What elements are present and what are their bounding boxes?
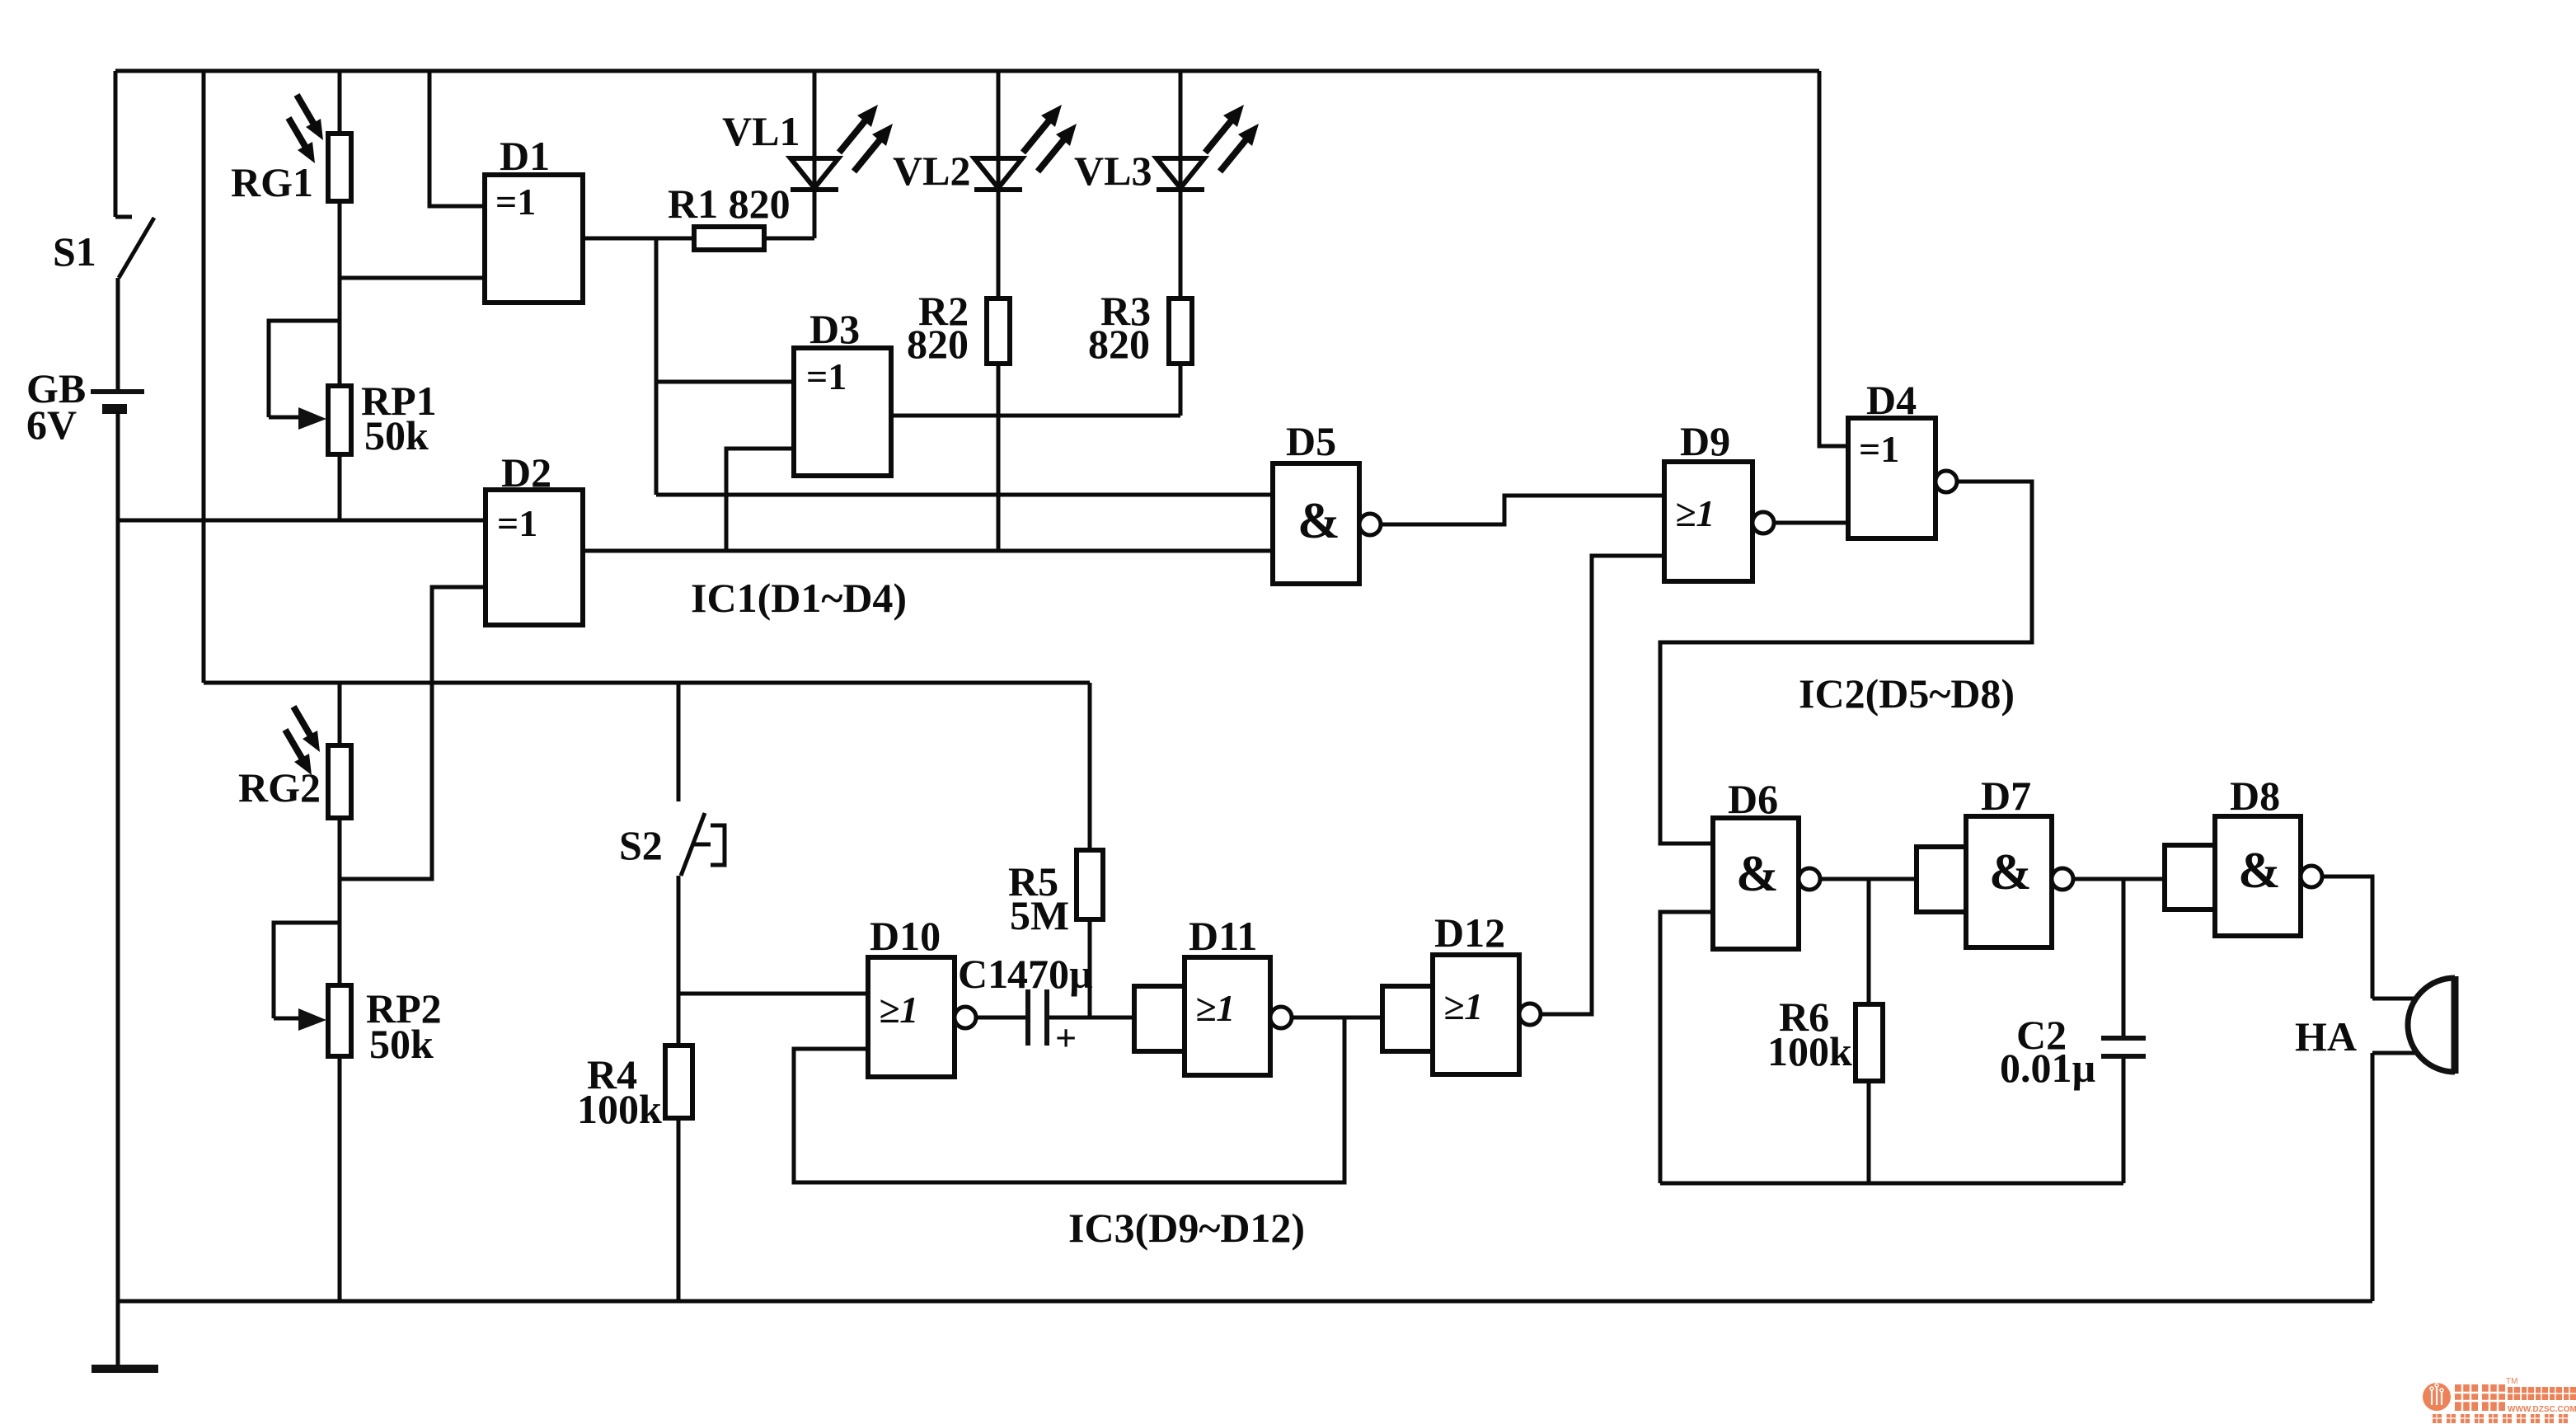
resistor R3 820: [1169, 298, 1192, 364]
svg-text:470µ: 470µ: [1007, 951, 1093, 997]
photoresistor RG2: [285, 707, 351, 818]
photoresistor RG1: [289, 95, 351, 201]
svg-text:≥1: ≥1: [879, 989, 918, 1031]
wire D7 output to D8: [2073, 877, 2165, 881]
svg-text:5M: 5M: [1010, 892, 1069, 938]
svg-text:IC1(D1~D4): IC1(D1~D4): [691, 575, 907, 621]
svg-text:&: &: [1297, 493, 1340, 549]
wire HA bottom stub: [2372, 1051, 2420, 1055]
svg-text:D10: D10: [870, 913, 941, 959]
svg-text:820: 820: [907, 321, 969, 367]
svg-text:TM: TM: [2506, 1377, 2517, 1386]
svg-text:S1: S1: [53, 228, 96, 275]
svg-text:VL1: VL1: [722, 108, 800, 154]
wire HA top stub: [2372, 997, 2420, 1001]
LED VL2: [974, 105, 1077, 190]
resistor R5 5M: [1077, 850, 1103, 919]
LED VL1: [791, 105, 893, 190]
svg-text:D11: D11: [1189, 913, 1257, 959]
svg-text:D4: D4: [1866, 377, 1917, 423]
wire VL3 cathode to R3: [1179, 190, 1183, 298]
wire RG2 to RP2: [338, 818, 342, 985]
wire node A vertical (D1 out to D5): [655, 238, 659, 495]
svg-text:D9: D9: [1680, 418, 1730, 464]
wire RP1 bottom lead: [338, 454, 342, 520]
wire R6 top lead: [1867, 879, 1871, 1004]
wire C2 top lead: [2122, 879, 2126, 1038]
watermark slogan glyphs: [2433, 1414, 2568, 1423]
watermark brand glyphs: [2455, 1384, 2505, 1411]
wire D11 output to D12: [1292, 1016, 1382, 1020]
wire C2 bottom lead: [2122, 1056, 2126, 1183]
wire R5 top lead: [1088, 683, 1092, 850]
svg-text:100k: 100k: [577, 1086, 662, 1132]
svg-text:R1 820: R1 820: [668, 181, 791, 227]
wire RG2 top lead: [338, 683, 342, 745]
LED VL3: [1157, 105, 1259, 190]
wire D9 output to D4: [1774, 521, 1848, 525]
op-amp gate D9 (NOR): [1664, 462, 1774, 581]
potentiometer RP2 50k: [274, 985, 351, 1056]
wire D3 upper input: [656, 380, 794, 384]
op-amp gate D12 (NOR): [1382, 955, 1541, 1074]
wire D12 output to D9 lower input: [1541, 556, 1664, 1014]
wire D6 output to D7: [1820, 877, 1917, 881]
svg-text:≥1: ≥1: [1195, 987, 1235, 1029]
wire D8 output to HA: [2322, 876, 2372, 999]
svg-text:RG2: RG2: [238, 764, 321, 811]
wire D2 lower input link: [340, 587, 486, 879]
switch S2: [681, 813, 725, 876]
wire R4 bottom lead: [677, 1118, 681, 1301]
wire D5 output to D9 upper input: [1381, 496, 1664, 524]
wire lower +V rail: [204, 681, 1090, 685]
svg-text:&: &: [1736, 846, 1779, 902]
wire RP2 bottom lead: [338, 1056, 342, 1301]
battery GB 6V: [91, 392, 144, 409]
wire D6 lower input feedback: [1660, 912, 1713, 1183]
svg-text:50k: 50k: [369, 1021, 434, 1067]
ground: [91, 1365, 158, 1373]
op-amp gate D3 (XOR =1): [794, 348, 891, 476]
op-amp gate D7 (NAND): [1917, 816, 2073, 947]
svg-text:D2: D2: [501, 449, 551, 496]
wire VL2 anode drop: [997, 71, 1001, 158]
wire RG1 to RP1: [338, 201, 342, 386]
svg-text:RG1: RG1: [231, 159, 313, 205]
wire R1 to VL1: [764, 237, 814, 241]
wire D4 upper input from +V rail: [1819, 71, 1848, 446]
wire IC2 feedback rail: [1660, 1182, 2123, 1186]
wire D2 output to D5 lower input: [583, 549, 1273, 553]
svg-text:D12: D12: [1434, 909, 1505, 956]
svg-text:D6: D6: [1728, 776, 1778, 822]
switch S1: [115, 217, 154, 392]
svg-text:C1: C1: [958, 951, 1008, 997]
svg-text:=1: =1: [497, 502, 537, 544]
wire R3 bottom lead: [1179, 364, 1183, 416]
op-amp gate D8 (NAND): [2165, 816, 2322, 936]
wire HA to ground rail: [2371, 1053, 2375, 1301]
svg-text:0.01µ: 0.01µ: [2000, 1045, 2095, 1091]
svg-text:≥1: ≥1: [1443, 985, 1483, 1027]
speaker HA: [2408, 976, 2455, 1074]
svg-text:&: &: [1989, 844, 2032, 900]
wire R5 bottom lead: [1088, 919, 1092, 1017]
wire D1 lower input: [340, 276, 485, 280]
wire RG1 top lead: [338, 71, 342, 134]
capacitor C2 0.01u: [2101, 1038, 2146, 1056]
svg-text:6V: 6V: [26, 402, 77, 448]
op-amp gate D1 (XOR =1): [485, 175, 583, 303]
resistor R1 820: [694, 227, 764, 250]
wire R2 bottom lead: [997, 364, 1001, 551]
svg-text:D7: D7: [1981, 773, 2031, 819]
svg-text:&: &: [2238, 843, 2281, 899]
op-amp gate D6 (NAND): [1713, 818, 1820, 949]
resistor R6 100k: [1856, 1004, 1883, 1081]
capacitor C1 470u: [1028, 989, 1077, 1059]
svg-text:=1: =1: [806, 355, 847, 397]
wire D1 upper input from +V rail: [429, 71, 485, 206]
wire bottom ground rail: [118, 1299, 2372, 1304]
wire D3 lower input link: [726, 449, 794, 551]
svg-text:WWW.DZSC.COM: WWW.DZSC.COM: [2508, 1405, 2576, 1414]
svg-text:IC2(D5~D8): IC2(D5~D8): [1799, 670, 2015, 717]
wire D3 output to R3: [891, 414, 1180, 418]
watermark logo circle: [2423, 1383, 2451, 1411]
svg-text:D8: D8: [2230, 773, 2280, 819]
wire IC3 feedback loop: [794, 1017, 1344, 1182]
svg-text:VL3: VL3: [1074, 148, 1152, 194]
resistor R4 100k: [665, 1046, 692, 1118]
svg-text:50k: 50k: [364, 412, 429, 458]
wire VL3 anode drop: [1179, 71, 1183, 158]
op-amp gate D11 (NOR): [1134, 957, 1292, 1075]
wire VL1 cathode to R1: [813, 190, 817, 238]
svg-text:100k: 100k: [1767, 1028, 1852, 1074]
wire VL2 cathode to R2: [997, 190, 1001, 298]
watermark title glyphs: [2508, 1387, 2576, 1400]
wire S2 top lead: [677, 683, 681, 801]
svg-text:D5: D5: [1286, 418, 1336, 464]
wire top +V rail: [115, 69, 1819, 73]
wire second vertical feed: [202, 71, 206, 683]
wire D2 upper input from left rail: [118, 519, 486, 523]
svg-text:D3: D3: [809, 306, 860, 352]
wire C1 to D11 input: [1047, 1016, 1134, 1020]
wire S2 to R4: [677, 876, 681, 1046]
svg-text:HA: HA: [2295, 1013, 2357, 1060]
wire R6 bottom lead: [1867, 1081, 1871, 1183]
svg-text:IC3(D9~D12): IC3(D9~D12): [1068, 1205, 1305, 1251]
svg-text:D1: D1: [500, 133, 550, 179]
wire VL1 anode drop: [813, 71, 817, 158]
svg-text:=1: =1: [1859, 428, 1899, 470]
svg-text:VL2: VL2: [893, 148, 970, 194]
wire left rail upper (battery to S1): [114, 71, 118, 217]
op-amp gate D10 (NOR): [868, 957, 976, 1077]
op-amp gate D5 (NAND): [1273, 463, 1381, 584]
op-amp gate D2 (XOR =1): [486, 490, 583, 625]
svg-text:+: +: [1055, 1017, 1077, 1059]
wire D4 output to D6 upper input: [1660, 482, 2032, 844]
svg-text:≥1: ≥1: [1675, 492, 1715, 534]
op-amp gate D4 (XOR =1): [1848, 418, 1957, 538]
svg-text:=1: =1: [495, 181, 536, 223]
potentiometer RP1 50k: [269, 386, 351, 454]
wire D10 output to C1: [976, 1016, 1028, 1020]
wire D1 output row: [583, 237, 694, 241]
wire left rail lower: [116, 411, 120, 1366]
wire RP1 wiper bracket: [269, 321, 340, 417]
resistor R2 820: [987, 298, 1010, 364]
svg-text:820: 820: [1088, 321, 1150, 367]
wire D5 upper input run: [656, 493, 1273, 497]
wire RP2 wiper bracket: [274, 923, 340, 1018]
svg-text:S2: S2: [619, 822, 663, 868]
wire D10 upper input: [678, 992, 868, 996]
